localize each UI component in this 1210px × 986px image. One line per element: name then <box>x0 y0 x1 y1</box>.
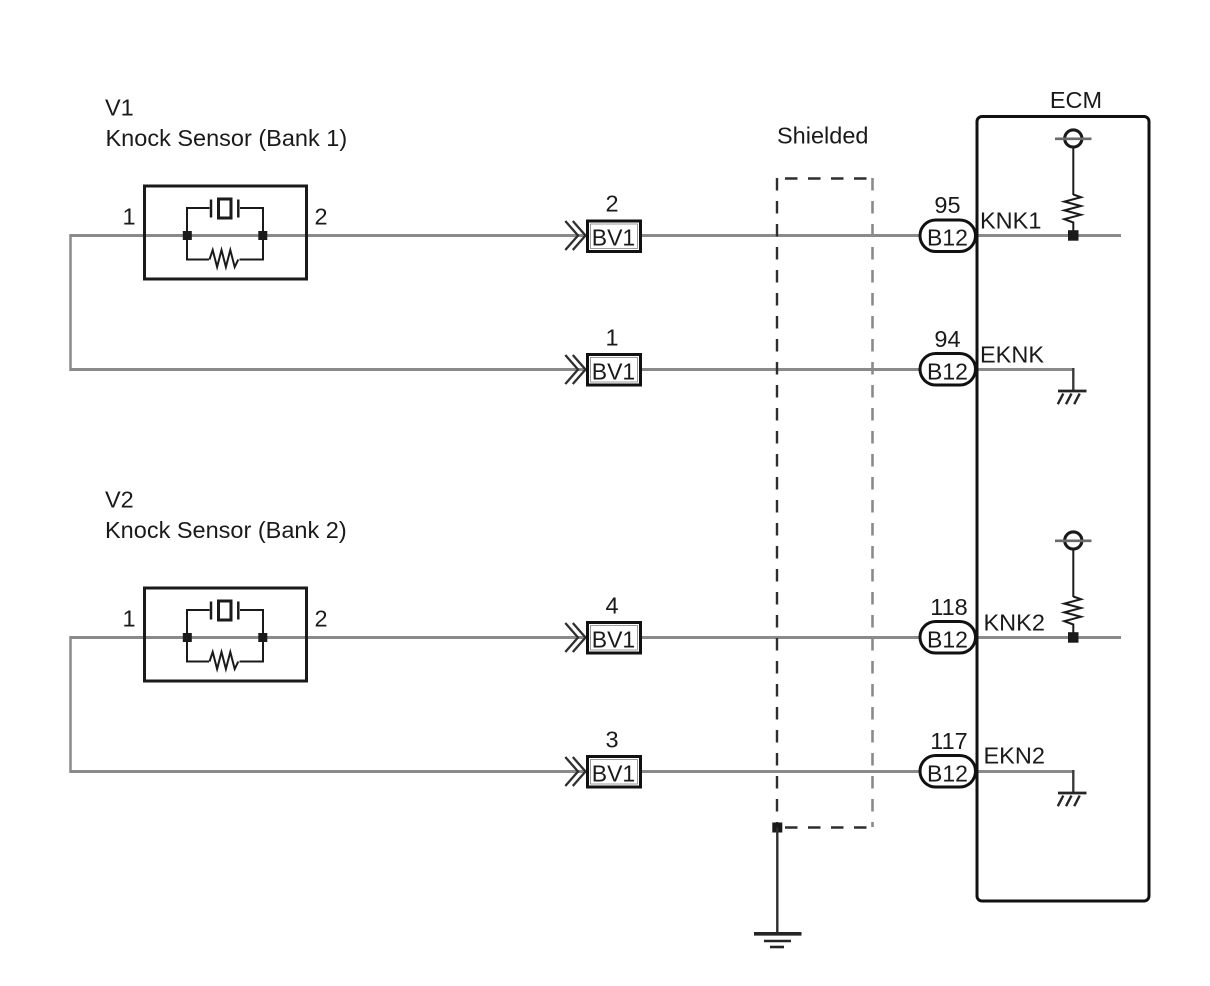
svg-text:V1: V1 <box>105 95 134 121</box>
node dot V2 pin2 <box>258 633 267 642</box>
pull-up circle terminal (KNK1) <box>1065 130 1082 147</box>
svg-text:BV1: BV1 <box>592 225 635 251</box>
svg-text:1: 1 <box>122 606 135 632</box>
svg-text:BV1: BV1 <box>592 359 635 385</box>
connector BV1 box row2 pin 1 <box>588 355 641 386</box>
connector B12 oval row1 pin 95 <box>920 220 976 252</box>
wire left wrap V1 pin1 vertical <box>69 234 72 371</box>
shield dashed box left edge <box>776 178 778 827</box>
wire circle to resistor (KNK1) <box>1072 148 1074 195</box>
wire row2 EKNK from sensor V1 pin 1 to ECM <box>70 368 1074 371</box>
wire row4 EKN2 from sensor V2 pin 1 to ECM <box>70 770 1074 773</box>
svg-text:KNK1: KNK1 <box>980 208 1041 234</box>
ECM box <box>977 117 1149 902</box>
connector B12 oval row4 pin 117 <box>920 756 976 788</box>
resistor R inside V1 (zigzag) <box>210 250 239 267</box>
svg-text:4: 4 <box>605 593 618 619</box>
sensor V1 internal loop <box>187 208 263 260</box>
svg-text:94: 94 <box>934 326 960 352</box>
node dot (KNK2 junction) <box>1068 632 1079 643</box>
svg-text:BV1: BV1 <box>592 761 635 787</box>
svg-text:95: 95 <box>934 192 960 218</box>
resistor pull-up (KNK1, vertical zigzag) <box>1064 195 1081 232</box>
knock sensor V2 box <box>145 588 307 681</box>
sensor V2 internal loop <box>187 610 263 662</box>
connector chevrons row4 <box>565 757 585 786</box>
svg-text:ECM: ECM <box>1050 87 1102 113</box>
wire circle to resistor (KNK2) <box>1072 550 1074 597</box>
earth ground (shield) <box>754 934 802 947</box>
shield node dot <box>772 823 782 833</box>
node dot V2 pin1 <box>183 633 192 642</box>
node dot V1 pin2 <box>258 231 267 240</box>
svg-text:117: 117 <box>930 728 967 754</box>
wire row1 KNK1 from sensor V1 pin 2 to ECM <box>70 234 1122 237</box>
svg-text:2: 2 <box>314 204 327 230</box>
connector B12 oval row2 pin 94 <box>920 354 976 386</box>
connector BV1 box row1 pin 2 <box>588 221 641 252</box>
shield dashed box right edge <box>871 178 874 827</box>
knock sensor V1 box <box>145 186 307 279</box>
pull-up circle terminal (KNK2) <box>1065 532 1082 549</box>
piezo element V1 (plates and crystal) <box>210 200 213 218</box>
wire EKN2 down-turn <box>1072 770 1074 793</box>
svg-text:2: 2 <box>314 606 327 632</box>
svg-text:Knock Sensor (Bank 1): Knock Sensor (Bank 1) <box>106 125 348 151</box>
svg-text:1: 1 <box>605 325 618 351</box>
svg-text:BV1: BV1 <box>592 627 635 653</box>
wire left wrap V2 pin1 vertical <box>69 636 72 773</box>
svg-text:B12: B12 <box>927 359 968 385</box>
svg-text:EKNK: EKNK <box>980 342 1044 368</box>
connector chevrons row2 <box>565 355 585 384</box>
svg-text:2: 2 <box>605 191 618 217</box>
svg-text:KNK2: KNK2 <box>984 610 1045 636</box>
svg-text:1: 1 <box>122 204 135 230</box>
svg-text:Knock Sensor (Bank 2): Knock Sensor (Bank 2) <box>105 517 347 543</box>
svg-text:B12: B12 <box>927 225 968 251</box>
connector chevrons row3 <box>565 623 585 652</box>
resistor R inside V2 (zigzag) <box>210 652 239 669</box>
piezo element V2 (plates and crystal) <box>210 602 213 620</box>
resistor pull-up (KNK2, vertical zigzag) <box>1064 597 1081 634</box>
connector chevrons row1 <box>565 221 585 250</box>
svg-text:EKN2: EKN2 <box>984 743 1045 769</box>
shield dashed box bottom edge <box>785 826 873 828</box>
shield ground wire <box>776 828 778 933</box>
line through circle (KNK1) <box>1055 138 1092 141</box>
connector BV1 box row3 pin 4 <box>588 623 641 654</box>
node dot V1 pin1 <box>183 231 192 240</box>
svg-text:3: 3 <box>605 727 618 753</box>
connector B12 oval row3 pin 118 <box>920 622 976 654</box>
svg-text:B12: B12 <box>927 761 968 787</box>
wire EKNK down-turn <box>1072 368 1074 391</box>
chassis ground (EKNK) <box>1058 391 1087 404</box>
svg-text:B12: B12 <box>927 627 968 653</box>
wire row3 KNK2 from sensor V2 pin 2 to ECM <box>70 636 1122 639</box>
shield dashed box top edge <box>785 177 873 179</box>
svg-text:118: 118 <box>930 594 967 620</box>
svg-text:V2: V2 <box>105 487 134 513</box>
chassis ground (EKN2) <box>1058 793 1087 806</box>
svg-text:Shielded: Shielded <box>777 123 868 149</box>
line through circle (KNK2) <box>1055 539 1092 542</box>
connector BV1 box row4 pin 3 <box>588 757 641 788</box>
node dot (KNK1 junction) <box>1068 230 1079 241</box>
